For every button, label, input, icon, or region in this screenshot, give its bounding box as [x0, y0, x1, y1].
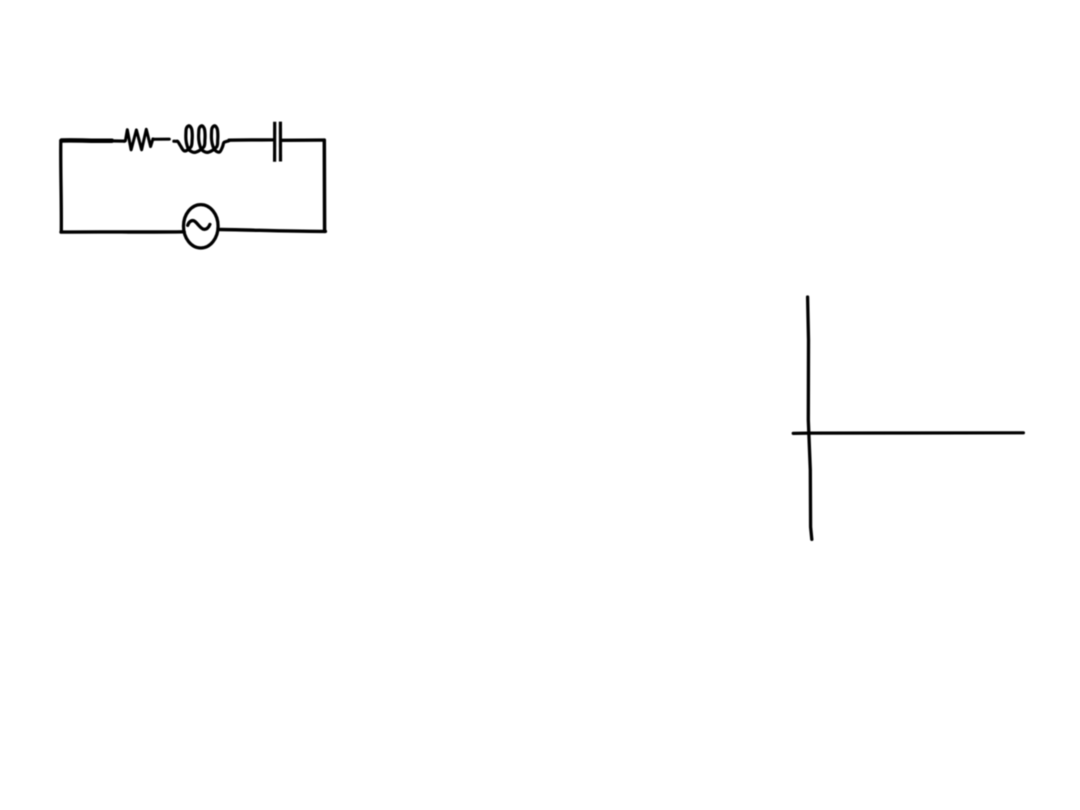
wire bottom-right horizontal: [220, 230, 325, 232]
capacitor right plate: [279, 122, 282, 162]
wire right vertical side of loop: [323, 140, 327, 231]
inductor: [174, 126, 229, 153]
wire capacitor to top-right corner: [282, 138, 324, 142]
resistor: [124, 129, 154, 150]
wire resistor to inductor: [154, 138, 170, 141]
wire top-left horizontal: [62, 138, 113, 143]
vertical axis: [808, 297, 812, 539]
wire inductor to capacitor: [229, 138, 273, 142]
AC source circle: [184, 205, 219, 248]
wire bottom-left horizontal: [61, 230, 184, 234]
capacitor left plate: [273, 122, 276, 162]
horizontal axis: [793, 431, 1023, 435]
wire top segment to resistor: [110, 139, 125, 142]
AC source sine symbol: [188, 221, 210, 230]
wire left vertical side of loop: [59, 141, 63, 232]
